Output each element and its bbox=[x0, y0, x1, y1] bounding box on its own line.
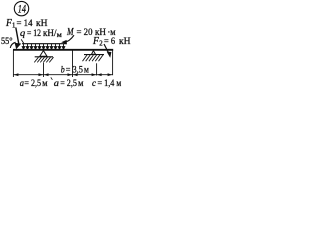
beam bbox=[13, 49, 113, 51]
svg-text:c: c bbox=[92, 78, 96, 89]
svg-text:= 12: = 12 bbox=[27, 28, 41, 39]
problem number circle 14 bbox=[14, 1, 28, 15]
extension line right end bbox=[112, 50, 114, 75]
moment M arrowhead bbox=[61, 40, 67, 45]
extension line left end bbox=[12, 50, 14, 77]
moment M arc bbox=[64, 35, 74, 42]
svg-text:a: a bbox=[54, 78, 59, 89]
dimension label a = 2,5 m (second) bbox=[54, 78, 84, 89]
left support triangle bbox=[40, 51, 47, 57]
dimension label b = 3,5 m bbox=[61, 64, 89, 75]
force F2 arrowhead bbox=[107, 52, 112, 58]
svg-text:= 2,5: = 2,5 bbox=[24, 78, 41, 89]
distributed load arrows bbox=[22, 44, 65, 49]
svg-text:кН: кН bbox=[119, 36, 131, 47]
force F2 arrow shaft bbox=[104, 44, 109, 55]
dimension label c = 1,4 m bbox=[92, 78, 121, 89]
svg-text:кН/: кН/ bbox=[43, 28, 57, 39]
dimension label a = 2,5 m (first) bbox=[20, 78, 48, 89]
stray tick before second a bbox=[51, 77, 53, 79]
extension line under left support bbox=[43, 63, 45, 77]
svg-text:= 3,5: = 3,5 bbox=[66, 64, 83, 75]
force F1 arrowhead bbox=[15, 43, 22, 50]
svg-text:1: 1 bbox=[12, 23, 15, 30]
svg-text:b: b bbox=[61, 64, 65, 75]
angle arc 55 bbox=[10, 42, 15, 48]
right support ground line bbox=[84, 54, 104, 56]
dimension line bbox=[13, 74, 112, 76]
svg-text:м: м bbox=[116, 78, 121, 89]
svg-text:2: 2 bbox=[99, 41, 103, 48]
label F2 = 6 kN bbox=[92, 36, 130, 48]
svg-text:= 6: = 6 bbox=[104, 36, 115, 47]
label F1 = 14 kN bbox=[5, 18, 47, 30]
right support hatching bbox=[83, 55, 104, 61]
label M = 20 kN*m bbox=[66, 27, 115, 38]
svg-text:14: 14 bbox=[18, 2, 26, 16]
distributed load q top line bbox=[22, 43, 67, 45]
right support triangle bbox=[92, 51, 96, 55]
svg-text:= 1,4: = 1,4 bbox=[98, 78, 115, 89]
left support hatching bbox=[34, 57, 53, 62]
label q = 12 kN/m bbox=[20, 28, 62, 39]
svg-text:м: м bbox=[78, 78, 83, 89]
force F1 arrow shaft bbox=[16, 28, 19, 45]
left support ground line bbox=[35, 56, 53, 58]
svg-text:q: q bbox=[20, 28, 25, 39]
svg-text:= 2,5: = 2,5 bbox=[60, 78, 77, 89]
q leader stroke bbox=[21, 39, 24, 43]
svg-text:м: м bbox=[42, 78, 47, 89]
extension line under right support bbox=[96, 63, 98, 75]
extension line mid beam bbox=[72, 50, 74, 77]
svg-text:= 20: = 20 bbox=[77, 27, 93, 38]
dimension arrowheads bbox=[14, 73, 112, 76]
svg-text:м: м bbox=[57, 30, 62, 39]
svg-text:м: м bbox=[84, 64, 89, 75]
